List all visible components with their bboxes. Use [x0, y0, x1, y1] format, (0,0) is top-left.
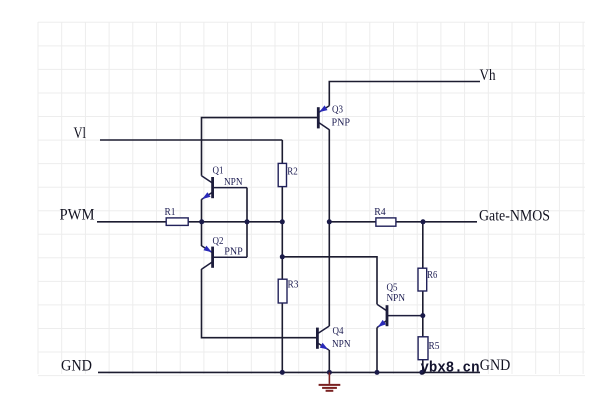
svg-text:Q4: Q4 [333, 325, 344, 337]
svg-text:PNP: PNP [224, 245, 243, 257]
wire R3 top lead [281, 222, 283, 279]
wire node to Q5 collector [282, 257, 377, 305]
wire Vl net [100, 139, 282, 141]
svg-text:Vh: Vh [480, 67, 496, 84]
svg-text:Vl: Vl [74, 125, 87, 142]
wire Q2 collector to Q4 base [202, 269, 317, 338]
wire Q2 emitter riser [201, 222, 203, 246]
resistor R1 [165, 206, 189, 225]
junction node Q4 emitter-GND [327, 370, 332, 375]
svg-text:NPN: NPN [387, 292, 406, 304]
svg-text:Q3: Q3 [332, 104, 343, 116]
wire Q5 emitter drop [376, 327, 378, 372]
wire PWM input [97, 221, 166, 223]
svg-text:R4: R4 [374, 206, 386, 218]
wire R2 bottom lead [281, 187, 283, 222]
wire R4 to Gate-NMOS [396, 221, 477, 223]
transistor Q3 [317, 104, 350, 130]
svg-text:PWM: PWM [60, 207, 95, 224]
junction node bases [245, 219, 250, 224]
resistor R5 [418, 337, 440, 360]
wire base tie Q1-Q2 [246, 188, 248, 258]
svg-text:Q1: Q1 [213, 165, 224, 177]
svg-text:ybx8.cn: ybx8.cn [421, 359, 480, 376]
svg-text:NPN: NPN [332, 338, 351, 350]
svg-text:GND: GND [61, 358, 92, 375]
junction node output (Q3/Q4 collectors) [327, 219, 332, 224]
wire R1 to emitter node [188, 221, 282, 223]
transistor Q1 [202, 165, 248, 200]
wire R5 bottom lead [422, 360, 424, 373]
svg-text:R1: R1 [165, 206, 176, 218]
wire GND rail [98, 371, 480, 373]
junction node Q5 base / R6-R5 [420, 313, 425, 318]
resistor R2 [278, 163, 298, 186]
resistor R4 [374, 206, 396, 226]
junction node R2-R3 [280, 219, 285, 224]
junction node R3 top / Q5 collector line [280, 254, 285, 259]
svg-text:R5: R5 [429, 340, 440, 352]
ground [319, 372, 341, 390]
wire R5 top lead [422, 316, 424, 337]
wire R6 top lead [422, 222, 424, 268]
svg-text:PNP: PNP [332, 116, 351, 128]
wire Q1 collector to Q3 base rail [202, 118, 318, 176]
junction node R3-GND [280, 370, 285, 375]
svg-text:GND: GND [480, 357, 511, 374]
wire Q4 emitter drop [328, 350, 330, 373]
junction node R4-R6 (gate) [421, 219, 426, 224]
resistor R3 [278, 279, 299, 303]
wire R2 top lead [281, 140, 283, 163]
wire output node to R4 [329, 221, 376, 223]
svg-text:Q2: Q2 [213, 235, 224, 247]
wire Q3-Q4 collector column [328, 130, 330, 327]
svg-text:NPN: NPN [224, 176, 243, 188]
wire R3 bottom lead [281, 303, 283, 372]
svg-text:R3: R3 [288, 279, 299, 291]
resistor R6 [418, 268, 438, 291]
wire Vh net [329, 82, 480, 106]
junction node R5-GND [419, 370, 424, 375]
junction node Q5 emitter-GND [375, 370, 380, 375]
wire R6 to Q5 base node [422, 291, 424, 316]
transistor Q2 [202, 235, 248, 269]
svg-text:R6: R6 [427, 269, 437, 281]
wire Q1 emitter drop [201, 199, 203, 222]
junction node PWM/emitters [199, 219, 204, 224]
svg-text:Gate-NMOS: Gate-NMOS [479, 208, 550, 225]
svg-text:R2: R2 [287, 165, 298, 177]
transistor Q4 [316, 325, 351, 350]
transistor Q5 [377, 282, 423, 328]
